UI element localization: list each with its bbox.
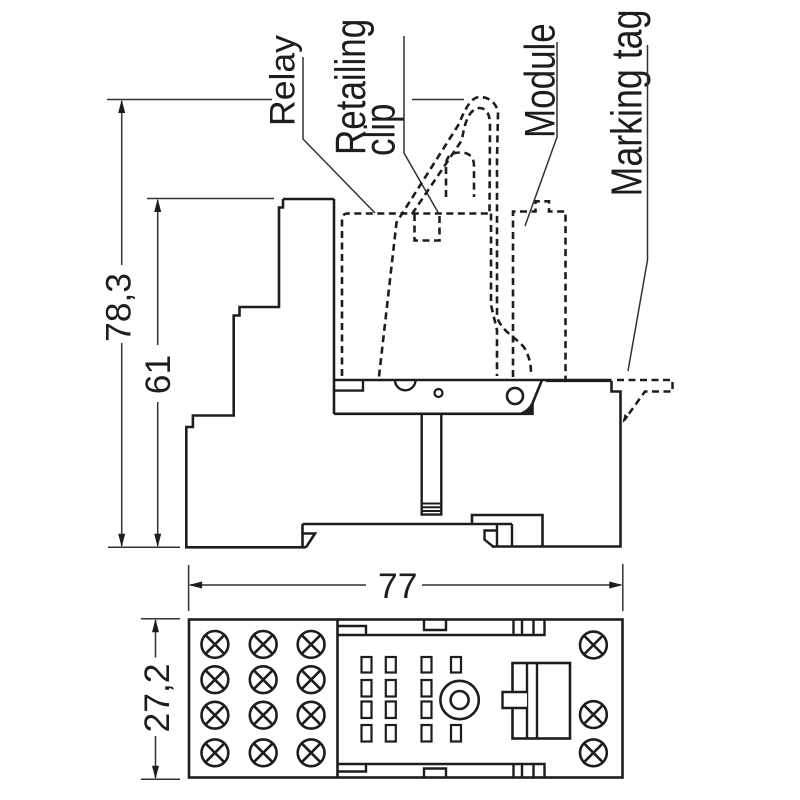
screw r3c2 bbox=[250, 702, 277, 729]
arrowheads 78,3 bbox=[118, 100, 125, 548]
side view body outline bbox=[186, 199, 334, 547]
channel top line bbox=[338, 620, 545, 636]
arrowheads 61 bbox=[154, 199, 161, 548]
contact slots column 4 bbox=[451, 657, 461, 742]
bottom ticks bbox=[514, 764, 534, 778]
right block inner lines bbox=[527, 663, 537, 739]
channel bottom tab left bbox=[338, 764, 367, 772]
leader line Module bbox=[525, 42, 557, 226]
extension line 27,2 bottom bbox=[141, 778, 180, 780]
marking tag dashed bbox=[617, 380, 673, 421]
screw r2c2 bbox=[250, 666, 277, 693]
side view left din hook bbox=[303, 524, 316, 547]
module dashed outline bbox=[513, 201, 566, 379]
screw r1c1 bbox=[202, 631, 229, 658]
bottom view separator bbox=[336, 620, 339, 778]
extension line top 61 bbox=[147, 198, 274, 200]
clip anchor box dashed bbox=[415, 214, 440, 241]
contact slots column 2 bbox=[386, 657, 396, 742]
channel bottom line bbox=[338, 764, 545, 778]
contact slots column 1 bbox=[362, 657, 372, 742]
arrowheads 77 bbox=[189, 582, 623, 589]
svg-text:77: 77 bbox=[378, 566, 418, 606]
right clip bracket bbox=[472, 515, 543, 547]
seat step box bbox=[334, 381, 363, 391]
side view seat wall bbox=[333, 199, 336, 414]
center ring outer bbox=[440, 681, 478, 719]
extension line top 78,3 bbox=[107, 99, 464, 101]
seat bottom line bbox=[334, 412, 533, 415]
marking tag tip bbox=[623, 414, 629, 423]
leader line Retailing clip bbox=[404, 36, 439, 214]
clip door arch dashed bbox=[446, 153, 474, 198]
seat small hole bbox=[435, 389, 443, 397]
center leg rungs bbox=[422, 504, 442, 512]
bottom right base bbox=[492, 381, 621, 547]
extension line 27,2 top bbox=[141, 618, 180, 620]
screw r1c3 bbox=[298, 631, 325, 658]
svg-text:Marking tag: Marking tag bbox=[603, 10, 651, 197]
seat right diagonal bbox=[531, 381, 542, 408]
relay dashed outline bbox=[342, 214, 497, 377]
extension line bottom side view bbox=[108, 546, 180, 548]
screw terminals left grid bbox=[202, 631, 607, 766]
right clip verticals bbox=[497, 524, 512, 547]
screw right r3 bbox=[580, 701, 607, 728]
svg-text:clip: clip bbox=[357, 103, 404, 156]
leader line Relay bbox=[303, 57, 375, 213]
shelf line bbox=[303, 523, 513, 525]
contact slots column 3 bbox=[422, 657, 432, 742]
leader line Marking tag bbox=[628, 45, 648, 371]
dimension line 61 bbox=[157, 200, 159, 546]
bottom view outer rect bbox=[189, 620, 623, 778]
extension line 77 left bbox=[189, 564, 623, 611]
channel top tab left bbox=[338, 626, 367, 635]
screw r4c3 bbox=[298, 739, 325, 766]
screw r4c1 bbox=[202, 739, 229, 766]
dimension line 77 bbox=[190, 584, 621, 586]
screw r2c3 bbox=[298, 666, 325, 693]
seat ring hole bbox=[507, 388, 523, 404]
screw r3c3 bbox=[298, 702, 325, 729]
right block tab bbox=[503, 692, 528, 708]
screw r3c1 bbox=[202, 702, 229, 729]
center leg bbox=[422, 414, 442, 515]
arrowheads 27,2 bbox=[152, 619, 159, 780]
screw r4c2 bbox=[250, 739, 277, 766]
dimension line 78,3 bbox=[121, 101, 123, 546]
top ticks bbox=[514, 620, 534, 636]
svg-text:78,3: 78,3 bbox=[99, 273, 139, 342]
svg-text:61: 61 bbox=[138, 355, 178, 395]
dimension line 27,2 bbox=[155, 620, 157, 778]
seat semicircle notch bbox=[395, 381, 416, 390]
screw right r4 bbox=[580, 739, 607, 766]
retaining clip inner dashed bbox=[412, 108, 490, 214]
retaining clip outer dashed bbox=[379, 97, 531, 377]
right block bbox=[513, 663, 571, 739]
svg-text:27,2: 27,2 bbox=[137, 663, 177, 732]
screw r2c1 bbox=[202, 666, 229, 693]
screw r1c2 bbox=[250, 631, 277, 658]
screw right r1 bbox=[580, 632, 607, 659]
bottom tab mid bbox=[424, 769, 446, 778]
relay seat top line bbox=[334, 379, 612, 382]
seat right nib bbox=[514, 403, 534, 415]
top tab mid bbox=[424, 620, 446, 631]
svg-text:Relay: Relay bbox=[263, 35, 303, 126]
right clip tooth bbox=[485, 531, 498, 548]
center ring inner bbox=[451, 691, 469, 709]
